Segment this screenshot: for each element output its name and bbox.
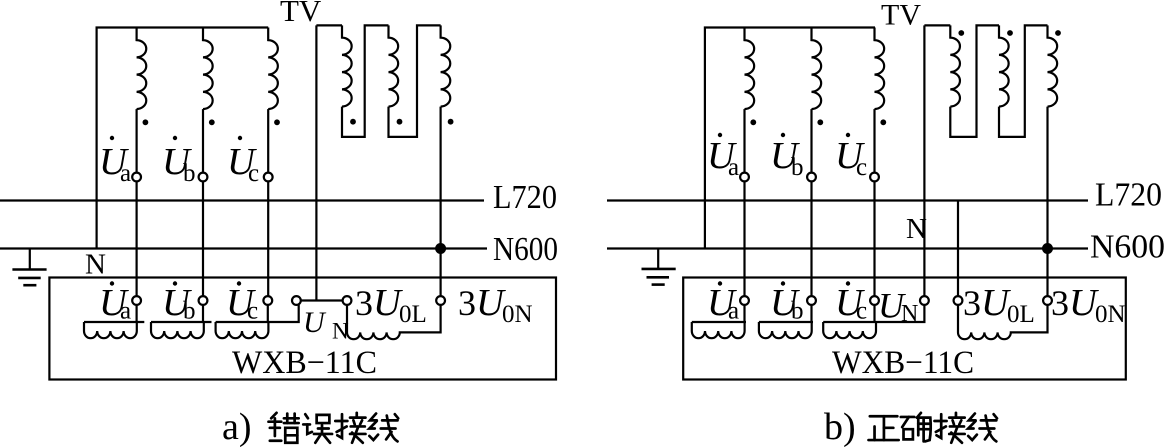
label 3U0L (b) [963,282,1035,328]
wire phase b coil to terminal circle (b) [810,109,812,173]
open-delta winding 3 dot (b) [1055,30,1061,36]
open-delta winding 2 (b) [999,25,1009,106]
relay terminal circle Uc (a) [263,296,272,305]
terminal circle Uc (a) [264,173,273,182]
TV secondary winding phase c (b) [875,28,885,110]
junction dot on N600 (a) [435,243,446,254]
svg-text:N: N [332,319,349,344]
TV secondary winding phase c (a) [268,28,278,110]
svg-text:TV: TV [280,0,322,28]
relay winding 3U0 (b) [958,305,1048,339]
relay terminal circle 3U0L (a) [343,296,352,305]
wire phase c coil to terminal circle (b) [873,109,875,173]
svg-text:L720: L720 [493,179,557,216]
open-delta U-link 1 + riser (a) [342,25,389,136]
label Uc with dot (upper, a) [227,136,259,187]
label Ub with dot (box, b) [770,281,804,324]
label UN (b) [878,286,918,328]
relay winding Uc (b) [823,305,924,322]
open-delta winding 1 (b) [950,25,960,106]
TV open-delta left wire (a) [315,25,317,300]
caption b) chinese text 正确接线 [869,413,997,443]
svg-text:N: N [85,249,106,281]
svg-text:3: 3 [355,283,373,323]
relay terminal circle Ub (a) [199,296,208,305]
caption a) chinese text 错误接线 [269,413,399,443]
relay terminal circle UN (b) [920,296,929,305]
svg-text:3: 3 [458,283,476,323]
svg-text:0L: 0L [399,301,427,328]
relay terminal circle 3U0L (b) [954,296,963,305]
svg-text:0N: 0N [1095,301,1126,328]
svg-text:WXB−11C: WXB−11C [832,345,974,381]
svg-text:N600: N600 [1090,229,1165,266]
wire phase b down to relay terminal (b) [810,181,812,296]
terminal circle Uc (b) [870,173,879,182]
relay winding Ub (b) [759,321,813,323]
wire terminal Ua into winding (b) [743,305,745,322]
TV secondary winding phase b (a) [203,28,213,110]
open-delta winding 2 (a) [389,25,399,106]
wire terminal Ub into winding (b) [810,305,812,322]
ground symbol (a): bar 1 [12,268,46,271]
relay terminal circle 3U0N (b) [1043,296,1052,305]
TV primary bus + neutral wire (b) [705,28,875,249]
open-delta U-link 2 + riser (a) [389,25,441,136]
svg-text:0L: 0L [1007,301,1035,328]
ground symbol (a): bar 2 [18,277,41,280]
label 3U0N (a) [458,282,533,328]
svg-text:3: 3 [963,283,981,323]
svg-text:b: b [791,298,804,325]
label Ub with dot (upper, a) [162,136,196,187]
wire open-delta to 3U0N terminal (b) [1046,107,1048,297]
wire phase a coil to terminal circle (b) [743,109,745,173]
svg-text:c: c [248,160,259,187]
wire phase c coil to terminal circle (a) [267,109,269,173]
open-delta winding 3 dot (a) [448,119,454,125]
relay terminal circle UN (a) [292,296,301,305]
polarity dot phase c (b) [880,119,886,125]
label Ua with dot (upper, a) [99,136,131,187]
label Uc with dot (box, b) [835,281,867,324]
TV secondary winding phase b (b) [812,28,822,110]
TV primary bus + neutral wire (a) [97,28,269,249]
terminal circle Ua (b) [740,173,749,182]
relay winding Ub (a) [151,321,212,323]
relay winding 3U0 (a) [347,305,441,339]
circuit a: L720 bus line [0,199,484,201]
svg-text:c: c [856,154,867,181]
open-delta U-link 1 + riser (b) [950,25,999,136]
ground symbol (a): bar 3 [23,284,36,287]
wire phase a down to relay terminal (a) [136,181,138,296]
relay box WXB-11C (b) [683,278,1126,380]
svg-text:b: b [183,160,196,187]
svg-text:c: c [856,298,867,325]
relay box WXB-11C (a) [49,278,556,380]
svg-text:c: c [247,298,258,325]
polarity dot phase a (a) [143,119,149,125]
relay winding Ua (a) [84,321,144,323]
wire phase c down to relay terminal (a) [267,181,269,296]
svg-text:b: b [791,154,804,181]
polarity dot phase c (a) [274,119,280,125]
svg-text:3: 3 [1051,283,1069,323]
label Ua with dot (box, b) [707,281,739,324]
ground symbol (a): stem [29,249,31,270]
ground symbol (b): bar 2 [647,276,670,279]
TV open-delta left wire to UN terminal (b) [923,25,925,296]
label 3U0L (a) [355,282,427,328]
label Ub with dot (box, a) [162,281,196,324]
open-delta winding 1 dot (b) [958,30,964,36]
ground symbol (b): bar 3 [652,283,665,286]
circuit b: L720 bus line [607,199,1088,201]
svg-text:a: a [728,154,739,181]
svg-text:N: N [901,301,918,327]
polarity dot phase b (a) [209,119,215,125]
circuit b: N600 bus line [607,247,1088,249]
label Ua with dot (upper, b) [707,133,739,181]
svg-text:WXB−11C: WXB−11C [232,345,377,381]
wire open-delta to 3U0N terminal (a) [440,107,442,297]
svg-text:0N: 0N [502,301,533,328]
open-delta winding 2 dot (a) [397,119,403,125]
label 3U0N (b) [1051,282,1126,328]
relay winding Uc (a) [216,305,299,322]
wire phase a coil to terminal circle (a) [136,109,138,173]
relay terminal circle Ub (b) [807,296,816,305]
wire terminal Ua into winding (a) [136,305,138,322]
open-delta winding 2 dot (b) [1007,30,1013,36]
ground symbol (b): stem [657,249,659,269]
open-delta winding 3 (a) [441,25,451,106]
label Uc with dot (box, a) [226,281,258,324]
terminal circle Ua (a) [132,173,141,182]
label UN (a) [303,306,349,344]
relay terminal circle Uc (b) [870,296,879,305]
wire terminal Uc into winding (a) [267,305,269,322]
wire L720 to 3U0L terminal (b) [957,201,959,297]
svg-text:L720: L720 [1095,177,1162,214]
polarity dot phase a (b) [750,119,756,125]
wire phase a down to relay terminal (b) [743,181,745,296]
wire terminal Ub into winding (a) [202,305,204,322]
svg-text:a): a) [222,406,252,447]
relay terminal circle Ua (b) [740,296,749,305]
svg-text:a: a [120,160,131,187]
polarity dot phase b (b) [817,119,823,125]
TV secondary winding phase a (b) [745,28,755,110]
circuit a: N600 bus line [0,247,487,249]
wire terminal Uc into winding (b) [873,305,875,322]
wire UN to 3U0L link (a) [301,299,343,301]
relay terminal circle Ua (a) [132,296,141,305]
relay terminal circle 3U0N (a) [436,296,445,305]
terminal circle Ub (a) [199,173,208,182]
svg-text:a: a [728,298,739,325]
svg-text:U: U [303,306,327,339]
terminal circle Ub (b) [807,173,816,182]
svg-text:b: b [183,298,196,325]
TV secondary winding phase a (a) [137,28,147,110]
open-delta U-link 2 + riser (b) [999,25,1048,136]
wire phase b coil to terminal circle (a) [202,109,204,173]
svg-text:a: a [120,298,131,325]
junction dot on N600 (b) [1042,243,1053,254]
label Ub with dot (upper, b) [770,133,804,181]
svg-text:b): b) [824,406,856,447]
label Uc with dot (upper, b) [835,133,867,181]
wire phase b down to relay terminal (a) [202,181,204,296]
open-delta winding 1 dot (a) [350,119,356,125]
open-delta winding 3 (b) [1048,25,1058,106]
ground symbol (b): bar 1 [642,268,676,271]
relay winding Ua (b) [692,321,746,323]
open-delta rail 1 (b) [924,24,950,26]
label Ua with dot (box, a) [99,281,131,324]
svg-text:TV: TV [881,0,921,32]
wire phase c down to relay terminal (b) [873,181,875,296]
svg-text:N600: N600 [493,231,558,268]
open-delta winding 1 (a) [316,24,342,26]
